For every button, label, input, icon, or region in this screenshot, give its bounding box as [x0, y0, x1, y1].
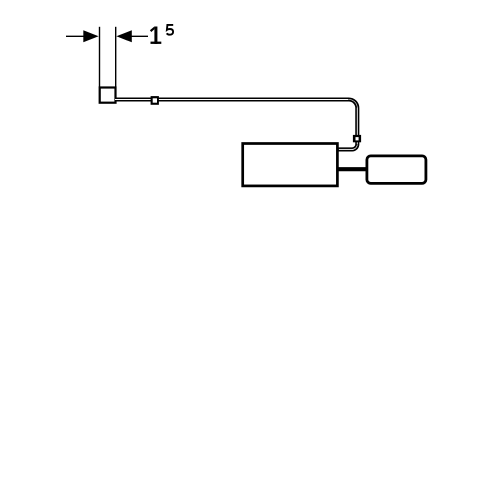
- cable wire core lower bend: [352, 144, 357, 149]
- link wire to power supply: [337, 167, 368, 171]
- dimension arrow left: [83, 30, 98, 42]
- wall line right: [115, 27, 117, 88]
- dimension label 1: [150, 27, 161, 44]
- dimension label superscript 5: [167, 25, 174, 35]
- cable wire: [115, 100, 357, 150]
- dimension arrow right: [116, 30, 131, 42]
- wall socket box: [100, 88, 116, 103]
- inline connector on cable: [151, 96, 159, 105]
- cable wire core top bend: [349, 100, 358, 109]
- dimension leader left: [66, 35, 85, 37]
- cable wire core vertical run: [356, 108, 358, 144]
- dimension leader right: [131, 35, 149, 37]
- power supply box: [367, 156, 426, 184]
- wall line left: [99, 27, 101, 88]
- control unit box: [243, 144, 338, 186]
- plug connector on cable: [353, 135, 361, 142]
- cable wire core lower run: [339, 148, 354, 150]
- cable wire core top run: [115, 99, 348, 101]
